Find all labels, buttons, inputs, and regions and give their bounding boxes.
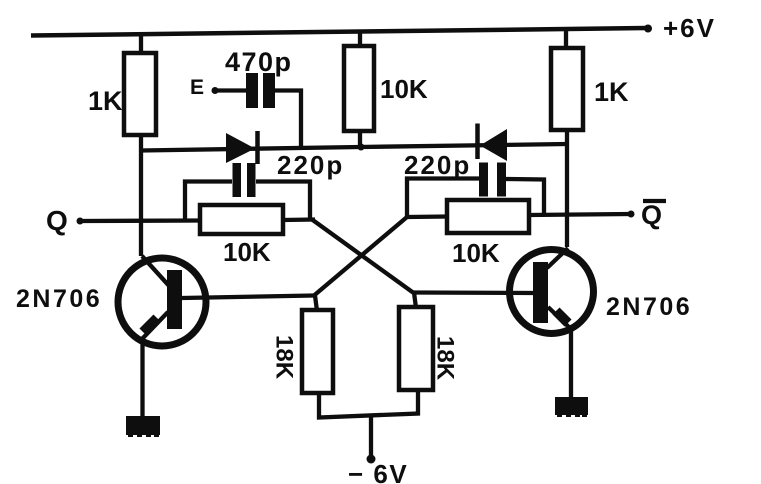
svg-text:1K: 1K xyxy=(88,86,123,116)
+6V power rail wire xyxy=(31,28,649,36)
resistor R5 10K right horizontal xyxy=(447,200,529,233)
Q1 emitter stroke xyxy=(142,312,168,339)
svg-text:470p: 470p xyxy=(225,47,293,77)
wire Q1 base to cross node xyxy=(182,296,314,299)
svg-text:Q: Q xyxy=(46,205,68,236)
wire C2 loop left side xyxy=(185,182,232,222)
Q2 emitter stroke xyxy=(548,307,572,330)
Qbar overline xyxy=(643,199,666,203)
svg-text:18K: 18K xyxy=(432,336,459,381)
resistor R3 1K right xyxy=(551,48,583,130)
wire C1 to diode line xyxy=(275,91,301,149)
Q1 body circle xyxy=(118,258,206,346)
ground symbol left xyxy=(126,416,160,437)
resistor R2 10K middle xyxy=(344,46,374,131)
wire R6 bottom to -6V bus xyxy=(319,390,418,418)
resistor R6 18K left vertical xyxy=(302,310,333,393)
wire rail to R2 top xyxy=(358,31,362,48)
svg-text:2N706: 2N706 xyxy=(16,285,102,313)
svg-text:2N706: 2N706 xyxy=(606,293,692,321)
resistor R1 1K left xyxy=(124,53,156,135)
svg-text:220p: 220p xyxy=(404,150,471,180)
capacitor C1 470p xyxy=(246,73,275,108)
Q1 collector stroke xyxy=(142,256,171,288)
wire Q1 emitter to ground xyxy=(140,344,144,418)
svg-text:− 6V: − 6V xyxy=(348,459,408,484)
Q2 base bar xyxy=(533,262,548,323)
svg-text:10K: 10K xyxy=(223,237,271,267)
-6V terminal dot xyxy=(367,455,376,464)
+6V rail terminal dot xyxy=(644,25,652,33)
capacitor C3 220p right xyxy=(479,163,506,197)
ground symbol right xyxy=(555,397,588,417)
svg-text:1K: 1K xyxy=(594,77,629,107)
wire C3 loop right side xyxy=(506,179,544,215)
svg-text:E: E xyxy=(190,76,204,99)
svg-text:18K: 18K xyxy=(271,335,298,380)
svg-text:10K: 10K xyxy=(452,238,500,268)
junction dot diodes/R2 node xyxy=(358,144,365,151)
wire diode line right segment xyxy=(360,144,567,147)
diode D1 (anode left) xyxy=(226,131,258,164)
node Qbar output terminal dot xyxy=(628,211,635,218)
svg-text:10K: 10K xyxy=(380,74,428,104)
wire Q2 emitter to ground xyxy=(569,330,573,399)
cross-coupling wire right-10K to left-base xyxy=(314,217,407,296)
node E input terminal dot xyxy=(212,87,219,94)
transistor Q2 2N706 right xyxy=(510,248,594,334)
wire C2 loop right side xyxy=(256,182,310,221)
diode D2 (anode right) xyxy=(478,124,508,162)
resistor R4 10K left horizontal xyxy=(200,205,283,234)
svg-text:+6V: +6V xyxy=(663,13,716,43)
node Q output terminal dot xyxy=(77,218,84,225)
Q2 emitter arrow xyxy=(556,311,568,323)
cross-coupling wire left-collector to right-base xyxy=(312,220,413,293)
wire rail to R1 top xyxy=(139,34,143,55)
wire R5 to Qbar output xyxy=(529,214,631,215)
wire Q2 base to cross node xyxy=(413,290,533,295)
transistor Q1 2N706 left xyxy=(118,256,206,346)
wire rail to R3 top xyxy=(564,29,568,49)
wire cross node to R6 top xyxy=(315,296,317,312)
wire -6V stem xyxy=(369,416,373,458)
wire cross node to R7 top xyxy=(414,293,416,309)
wire R2 bottom to diode junction xyxy=(358,130,362,148)
Q1 base bar xyxy=(167,270,182,329)
capacitor C2 220p left xyxy=(233,163,256,197)
Q2 body circle xyxy=(510,250,594,334)
wire Q output line xyxy=(82,218,201,223)
svg-text:Q: Q xyxy=(641,200,662,230)
svg-text:220p: 220p xyxy=(277,150,344,180)
wire diode line left segment xyxy=(141,147,360,151)
wire R4 right to cross node xyxy=(283,217,315,222)
Q2 collector stroke xyxy=(547,248,568,268)
wire E to C1 xyxy=(217,88,247,92)
wire cross node to R5 xyxy=(407,214,448,219)
wire R3 collector branch right vertical xyxy=(565,130,569,247)
resistor R7 18K right vertical xyxy=(399,307,433,390)
wire R1 collector branch left vertical xyxy=(139,135,143,256)
Q1 emitter arrow xyxy=(143,318,157,332)
wire C3 loop left side xyxy=(407,179,479,218)
